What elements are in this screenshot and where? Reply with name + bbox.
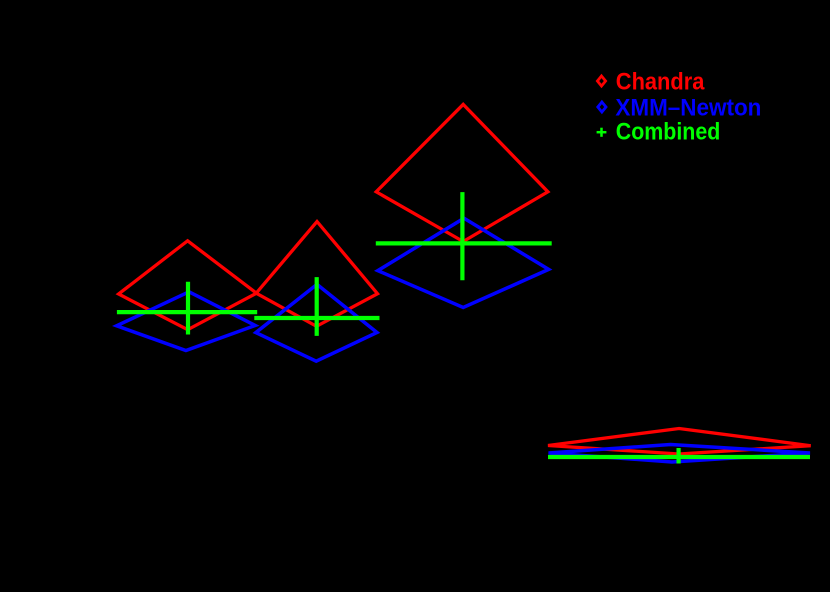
red diamond R2 (Chandra point 2): [256, 222, 377, 327]
legend marker green plus: [597, 128, 607, 137]
red diamond R1 (Chandra point 1): [119, 241, 257, 330]
green cross G1 (Combined point 1): [117, 282, 257, 335]
svg-text:Combined: Combined: [616, 118, 721, 145]
green cross G2 (Combined point 2): [254, 277, 379, 336]
svg-text:Chandra: Chandra: [616, 68, 705, 95]
blue diamond B4 (XMM-Newton point 4): [549, 445, 811, 463]
svg-text:XMM–Newton: XMM–Newton: [615, 94, 761, 121]
blue diamond B2 (XMM-Newton point 2): [256, 284, 377, 361]
legend marker red diamond: [597, 76, 605, 86]
red diamond R4 (Chandra point 4): [548, 429, 811, 455]
legend marker blue diamond: [598, 102, 606, 112]
green cross G4 (Combined point 4): [548, 448, 810, 464]
blue diamond B3 (XMM-Newton point 3): [378, 218, 549, 307]
blue diamond B1 (XMM-Newton point 1): [117, 292, 256, 351]
red diamond R3 (Chandra point 3): [376, 104, 548, 241]
green cross G3 (Combined point 3): [376, 192, 552, 280]
